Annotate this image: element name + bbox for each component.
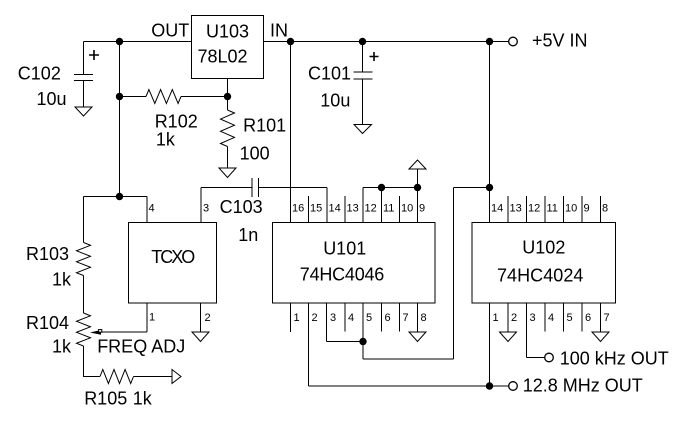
wire vertical rail x=119: [119, 42, 121, 197]
wire U102 pin14 node to left: [454, 187, 490, 189]
junction node U101 pin11: [378, 184, 385, 191]
svg-text:2: 2: [205, 312, 211, 324]
junction node on OUT rail x=119: [116, 38, 123, 45]
wire TCXO pin2 to ground: [200, 303, 202, 332]
resistor R104 zigzag: [77, 313, 91, 346]
svg-text:R104: R104: [26, 313, 69, 333]
svg-text:8: 8: [421, 312, 427, 324]
resistor R103 zigzag: [77, 243, 91, 276]
wire U101 pin15 stub: [308, 196, 310, 223]
capacitor C102 plates: [74, 75, 93, 81]
TCXO box: [129, 223, 217, 304]
svg-text:13: 13: [510, 203, 522, 215]
svg-text:9: 9: [419, 203, 425, 215]
svg-text:14: 14: [329, 203, 341, 215]
wire U102 pin13 stub: [507, 196, 509, 223]
svg-text:15: 15: [310, 203, 322, 215]
svg-text:R103: R103: [26, 244, 69, 264]
svg-text:1k: 1k: [156, 130, 176, 150]
wire R105 to arrow: [134, 376, 173, 378]
svg-text:1k: 1k: [133, 389, 153, 409]
svg-text:R102: R102: [155, 112, 198, 132]
svg-text:C101: C101: [308, 64, 351, 84]
svg-text:6: 6: [585, 312, 591, 324]
svg-text:1k: 1k: [52, 337, 72, 357]
wire U102 pin4 stub: [544, 303, 546, 332]
wire R104 bottom to R105: [84, 346, 101, 377]
wire C103 right lead to U101 pin14: [259, 187, 328, 189]
capacitor C103 plates: [252, 178, 259, 197]
svg-text:6: 6: [385, 312, 391, 324]
junction node +5V rail: [486, 38, 493, 45]
svg-text:R101: R101: [243, 116, 286, 136]
svg-text:OUT: OUT: [151, 21, 189, 41]
wire R101 top lead: [227, 97, 229, 111]
svg-text:FREQ ADJ: FREQ ADJ: [97, 337, 185, 357]
junction node R102 right / R101 top: [224, 93, 231, 100]
terminal 12.8 MHz OUT: [509, 382, 518, 391]
wire U101 pin10 stub: [399, 196, 401, 223]
svg-text:10u: 10u: [37, 89, 67, 109]
wire U101 pin1 stub: [290, 303, 292, 332]
svg-text:12: 12: [528, 203, 540, 215]
resistor R101 zigzag: [221, 110, 235, 147]
wire R101 to ground: [227, 147, 229, 169]
resistor R105 zigzag: [100, 370, 134, 384]
wire U102 pin3 down: [526, 303, 528, 358]
junction node C101 at IN rail: [359, 38, 366, 45]
svg-text:3: 3: [203, 203, 209, 215]
svg-text:3: 3: [330, 312, 336, 324]
svg-text:7: 7: [604, 312, 610, 324]
svg-text:R105: R105: [84, 389, 127, 409]
svg-text:10: 10: [401, 203, 413, 215]
svg-text:10u: 10u: [320, 91, 350, 111]
wire to R103 top: [83, 197, 85, 243]
wire TCXO pin3 up: [200, 188, 202, 223]
wire U102 pin2 to ground: [507, 303, 509, 332]
wire R103 to R104: [83, 276, 85, 314]
plus sign C102: [89, 50, 99, 60]
wire 12.8 MHz line: [309, 385, 509, 387]
wire U101 pin5: [362, 303, 364, 342]
capacitor C101 plates: [354, 72, 373, 79]
wire U102 pin8 stub: [600, 196, 602, 223]
wire C102 top drop: [83, 42, 85, 75]
wire R104 wiper: [99, 331, 147, 333]
terminal +5V IN: [509, 37, 518, 46]
svg-text:1: 1: [149, 312, 155, 324]
ground TCXO pin2: [192, 332, 209, 342]
wire U101 pin7 stub: [399, 303, 401, 332]
svg-text:2: 2: [511, 312, 517, 324]
svg-text:1: 1: [294, 312, 300, 324]
svg-text:7: 7: [403, 312, 409, 324]
wire vertical x=453.5: [453, 188, 455, 360]
svg-text:C102: C102: [18, 64, 61, 84]
svg-text:3: 3: [530, 312, 536, 324]
plus sign C101: [370, 52, 379, 61]
svg-text:1k: 1k: [52, 270, 72, 290]
wire C101 top drop: [362, 42, 364, 73]
ground C101: [354, 125, 372, 134]
wire +5V rail down to U102 pin14: [489, 42, 491, 223]
terminal 100 kHz OUT: [545, 353, 554, 362]
svg-text:13: 13: [347, 203, 359, 215]
ground U101 pin8: [409, 332, 426, 342]
wire U102 pin6 stub: [581, 303, 583, 332]
U101 box: [273, 223, 436, 304]
ground U102 pin7: [592, 332, 609, 342]
wire U101 pin4 stub: [344, 303, 346, 332]
wire C102 to ground: [83, 81, 85, 108]
wire U102 pin5 stub: [563, 303, 565, 332]
junction node U102 pin14: [486, 184, 493, 191]
ground C102: [75, 107, 92, 116]
wire C103 left lead: [201, 187, 252, 189]
svg-text:U102: U102: [522, 238, 565, 258]
resistor R102 zigzag: [146, 90, 181, 104]
wire U102 pin9 stub: [581, 196, 583, 223]
arrow R105 output: [172, 370, 181, 384]
junction node R102 left: [116, 93, 123, 100]
wire 100 kHz line: [527, 357, 545, 359]
wire power symbol stem: [417, 169, 419, 188]
wire TCXO pin4: [146, 197, 148, 223]
svg-text:2: 2: [312, 312, 318, 324]
svg-text:U101: U101: [323, 239, 366, 259]
svg-text:12.8 MHz OUT: 12.8 MHz OUT: [523, 376, 643, 396]
wire U101 pin11: [381, 188, 383, 223]
svg-text:1n: 1n: [238, 225, 258, 245]
wire U101 pin6 stub: [381, 303, 383, 332]
svg-text:16: 16: [292, 203, 304, 215]
junction node U101 pin16 at IN rail: [287, 38, 294, 45]
svg-text:IN: IN: [270, 21, 288, 41]
svg-text:TCXO: TCXO: [151, 247, 195, 267]
svg-text:12: 12: [365, 203, 377, 215]
wire U101 pin3: [326, 303, 328, 342]
svg-text:78L02: 78L02: [198, 47, 248, 67]
wire IN rail from U103 to +5V terminal: [264, 41, 509, 43]
wire U101 pin13 stub: [344, 196, 346, 223]
wire U101 pin3 to pin5 tie: [327, 341, 364, 343]
svg-text:11: 11: [383, 203, 394, 215]
svg-text:74HC4024: 74HC4024: [497, 266, 583, 286]
svg-text:+5V IN: +5V IN: [532, 31, 588, 51]
wire U102 pin10 stub: [563, 196, 565, 223]
svg-text:14: 14: [491, 203, 503, 215]
U102 box: [472, 223, 616, 304]
junction node U101 pin5: [359, 338, 366, 345]
wire U101 pin2 down: [308, 303, 310, 386]
junction node rail to TCXO pin4: [116, 193, 123, 200]
ground R101: [219, 168, 236, 178]
svg-text:10: 10: [565, 203, 577, 215]
wire C101 to ground: [362, 79, 364, 125]
svg-text:8: 8: [602, 203, 608, 215]
wire node row y=196: [84, 196, 148, 198]
junction node 12.8 MHz at U102 pin1: [486, 382, 493, 389]
svg-text:100 kHz OUT: 100 kHz OUT: [560, 349, 669, 369]
svg-text:C103: C103: [220, 197, 263, 217]
svg-text:9: 9: [584, 203, 590, 215]
wire OUT rail from C102 to U103: [84, 41, 192, 43]
svg-text:74HC4046: 74HC4046: [300, 265, 385, 285]
wire U102 pin11 stub: [544, 196, 546, 223]
wire U103 GND pin drop: [227, 79, 229, 97]
svg-text:11: 11: [547, 203, 558, 215]
wire U101 pins 12-11-9 tie: [363, 187, 418, 189]
wire R102 left lead: [120, 96, 147, 98]
wire U102 pin7 to ground: [600, 303, 602, 332]
wire U101 pin14: [326, 188, 328, 223]
wiper arrow head R104: [90, 330, 101, 335]
wire R102 right lead: [181, 96, 228, 98]
power arrow above U101 pin9: [409, 160, 426, 169]
op-amp U103 box: [192, 16, 264, 79]
svg-text:5: 5: [567, 312, 573, 324]
wire TCXO pin1 down: [146, 303, 148, 332]
wire U102 pin12 stub: [526, 196, 528, 223]
wire U102 pin1 down: [489, 303, 491, 386]
svg-text:1: 1: [493, 312, 499, 324]
svg-text:5: 5: [366, 312, 372, 324]
ground U102 pin2: [500, 332, 517, 342]
svg-text:4: 4: [548, 312, 554, 324]
wire U101 pin9: [417, 188, 419, 223]
wire U101 pin5 node drop: [362, 342, 364, 360]
svg-text:U103: U103: [206, 22, 249, 42]
wire U101 pin8 to ground: [417, 303, 419, 332]
wire U101 pin12: [362, 188, 364, 223]
wire horizontal y=359: [363, 358, 454, 360]
svg-text:4: 4: [149, 203, 155, 215]
wire U101 pin16 from IN rail: [290, 42, 292, 223]
junction node U101 pin9: [414, 184, 421, 191]
svg-text:100: 100: [240, 144, 270, 164]
svg-text:4: 4: [348, 312, 354, 324]
